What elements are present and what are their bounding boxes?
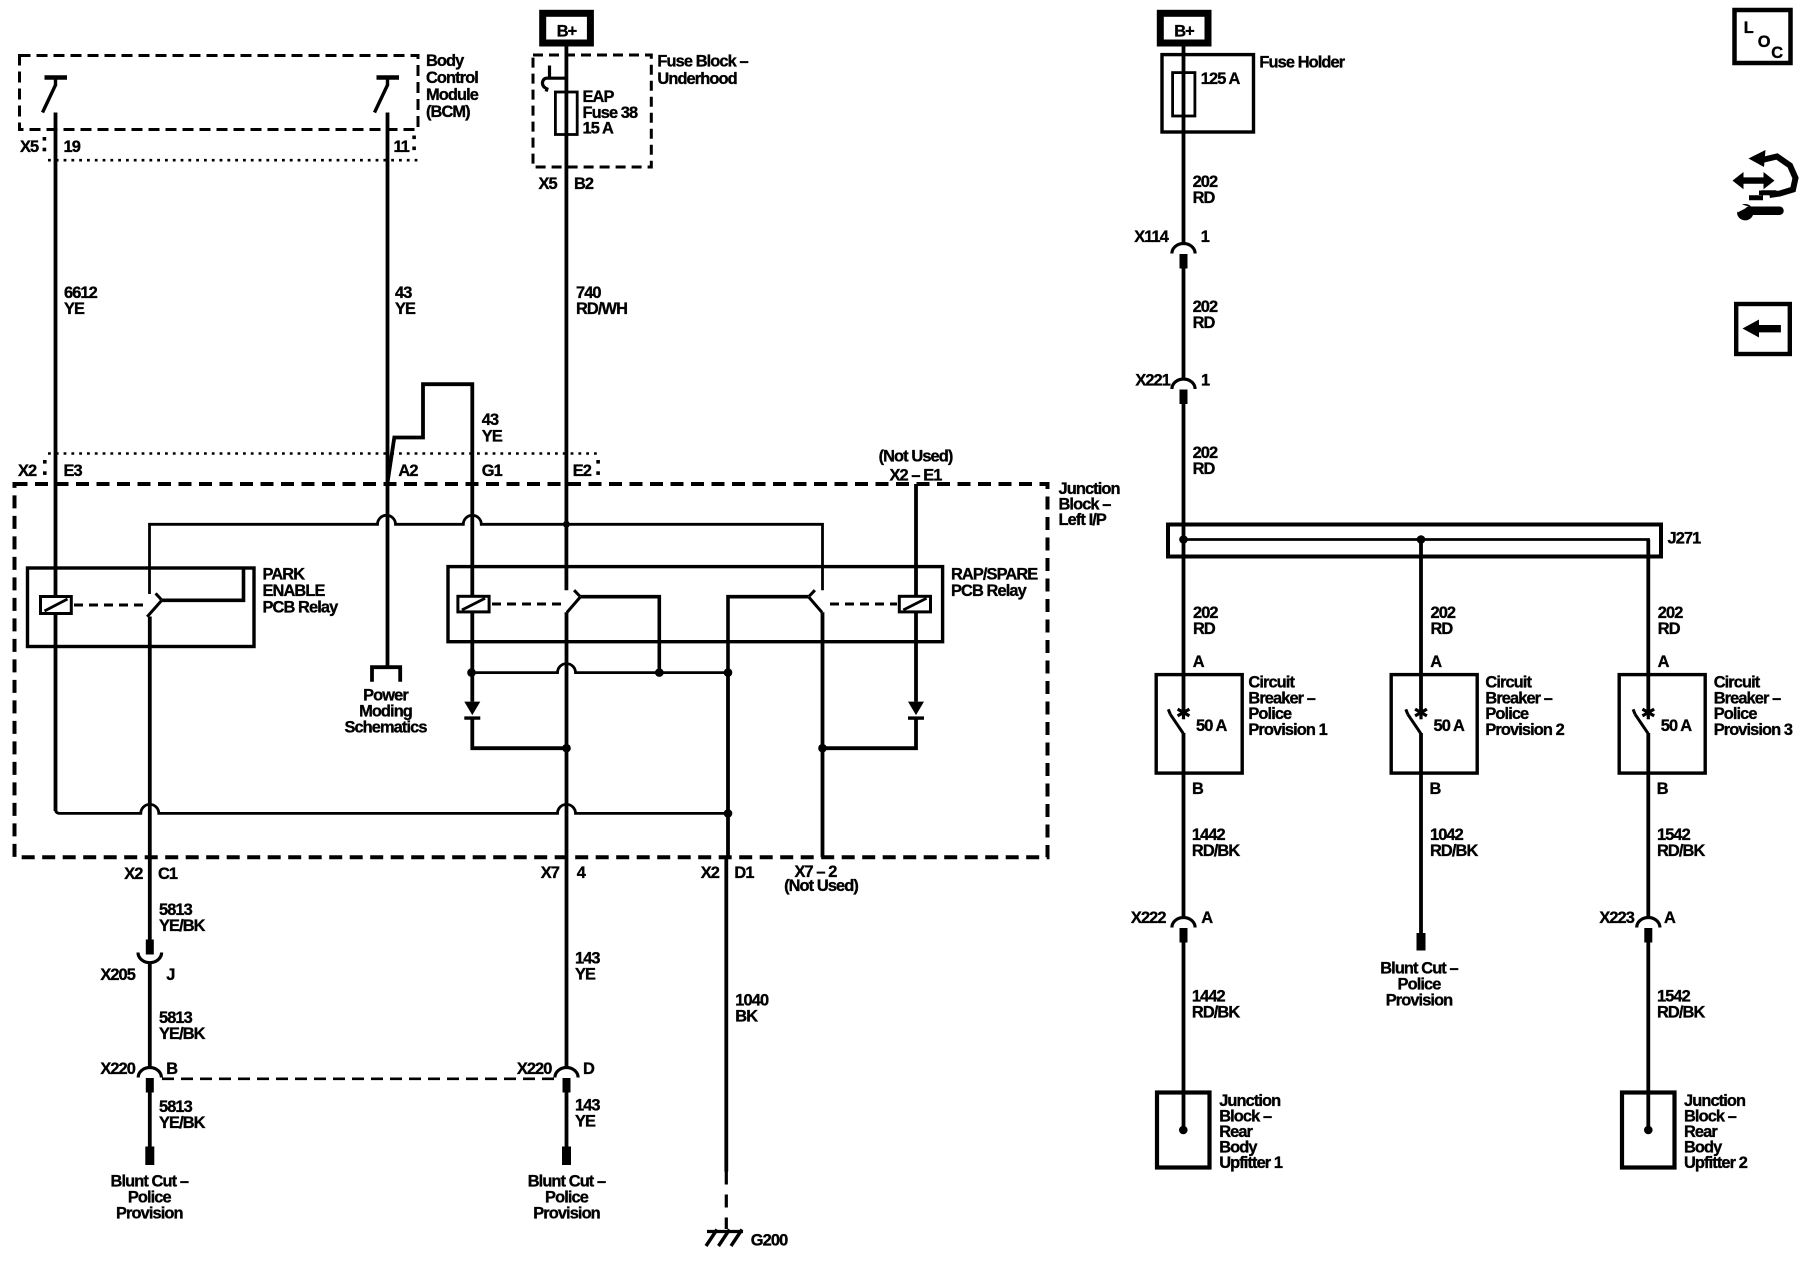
B+ battery positive symbol (right) xyxy=(1160,13,1208,43)
svg-text:O: O xyxy=(1758,33,1771,51)
Junction Block - Rear Body Upfitter 2 box xyxy=(1622,1093,1675,1168)
svg-text:Provision 3: Provision 3 xyxy=(1714,721,1793,739)
svg-text:A: A xyxy=(1193,653,1205,671)
fuse EAP Fuse 38 15A symbol xyxy=(555,92,577,135)
svg-text:125 A: 125 A xyxy=(1201,70,1241,88)
svg-text:PCB Relay: PCB Relay xyxy=(263,599,340,617)
svg-text:1: 1 xyxy=(1201,228,1210,246)
Fuse Holder box xyxy=(1162,55,1254,132)
svg-text:B2: B2 xyxy=(574,175,594,193)
svg-text:A: A xyxy=(1664,909,1676,927)
Fuse Block - Underhood dashed box xyxy=(533,55,651,167)
RAP/SPARE left switch output wire (to X7-4) xyxy=(565,612,569,857)
junction node E2 bus tap xyxy=(563,521,570,528)
wire 1442 RD/BK (breaker 1 to X222) xyxy=(1182,733,1186,917)
svg-text:Upfitter 2: Upfitter 2 xyxy=(1684,1154,1748,1172)
svg-text:X223: X223 xyxy=(1599,909,1634,927)
svg-text:YE: YE xyxy=(395,300,416,318)
wire J271 to circuit breaker 2 (202 RD) xyxy=(1419,540,1423,676)
bus bar J271 box xyxy=(1168,525,1661,557)
svg-text:X5: X5 xyxy=(20,138,39,156)
wire 143 YE (X7-4 to X220-D) xyxy=(565,857,569,1067)
RAP/SPARE relay linkage left (dashed) xyxy=(492,603,562,606)
svg-text:L: L xyxy=(1744,19,1754,37)
svg-text:RD: RD xyxy=(1193,189,1216,207)
circuit breaker 2 box (Police Provision 2) xyxy=(1391,675,1477,774)
ground G200 symbol xyxy=(707,1230,743,1233)
circuit breaker 1 input wire xyxy=(1182,675,1186,710)
junction node left coil to ground bus xyxy=(467,668,476,677)
svg-text:Underhood: Underhood xyxy=(657,70,736,88)
svg-text:RAP/SPARE: RAP/SPARE xyxy=(951,566,1038,584)
RAP/SPARE right switch blade xyxy=(809,597,822,613)
junction block internal B+ bus (from E2) xyxy=(150,515,823,594)
svg-text:11: 11 xyxy=(394,138,410,156)
svg-text:G200: G200 xyxy=(751,1232,788,1250)
svg-text:E2: E2 xyxy=(573,462,592,480)
junction node right N.O. to ground bus (D1) xyxy=(724,668,733,677)
wire G1 to RAP/SPARE relay coil xyxy=(470,484,474,596)
dashed wire to ground xyxy=(725,1172,728,1230)
Body Control Module (BCM) dashed box xyxy=(20,56,419,130)
circuit breaker 2 contact star xyxy=(1415,706,1427,720)
svg-text:RD/BK: RD/BK xyxy=(1430,842,1478,860)
Junction Block - Rear Body Upfitter 1 box xyxy=(1157,1093,1210,1168)
page icon back arrow box xyxy=(1736,304,1790,354)
junction node left N.O. to ground bus xyxy=(655,668,664,677)
in-line connector X220 pin B xyxy=(138,1068,161,1093)
svg-text:Provision 1: Provision 1 xyxy=(1248,721,1327,739)
svg-text:Fuse Block –: Fuse Block – xyxy=(657,53,748,71)
right diode lead to X7-2 wire xyxy=(823,719,917,749)
BCM internal switch (pin 11 output) xyxy=(375,78,400,113)
page icon LOC box xyxy=(1735,10,1791,63)
PARK coil return to D1 ground trace xyxy=(56,804,729,813)
junction node J271 wire 2 xyxy=(1417,535,1426,544)
RAP/SPARE right coil return wire xyxy=(914,612,918,702)
svg-text:(Not Used): (Not Used) xyxy=(879,448,953,466)
wire 43 YE branch jog (A2 to G1) xyxy=(387,384,472,484)
svg-text:Upfitter 1: Upfitter 1 xyxy=(1219,1154,1283,1172)
svg-text:D: D xyxy=(583,1060,595,1078)
wire E3 to PARK ENABLE coil xyxy=(54,454,58,598)
svg-text:YE: YE xyxy=(482,428,503,446)
fuse 125A symbol xyxy=(1173,73,1195,116)
svg-text:B: B xyxy=(1192,780,1204,798)
PARK ENABLE coil return wire xyxy=(54,614,58,812)
svg-text:PARK: PARK xyxy=(263,566,306,584)
svg-text:B+: B+ xyxy=(1174,23,1194,41)
circuit breaker 2 input wire xyxy=(1419,675,1423,710)
svg-text:Body: Body xyxy=(426,52,465,70)
diode (left, PARK/RAP coil suppression) xyxy=(464,702,480,716)
PARK ENABLE relay switch blade xyxy=(147,600,162,617)
wire X2-E1 (Not Used) to RAP/SPARE coil xyxy=(914,484,918,596)
wire A2 to Power Moding Schematics xyxy=(386,484,390,666)
wire 143 YE (below X220) xyxy=(565,1093,569,1147)
off-page connector symbol (Power Moding) xyxy=(372,667,400,682)
BCM internal switch (pin 19 output) xyxy=(43,78,68,113)
circuit breaker 3 contact star xyxy=(1642,706,1654,720)
svg-text:YE: YE xyxy=(575,1113,596,1131)
junction block ground bus xyxy=(472,664,729,673)
svg-text:RD: RD xyxy=(1193,620,1216,638)
svg-text:Control: Control xyxy=(426,69,478,87)
circuit breaker 3 blade xyxy=(1635,714,1648,733)
svg-text:RD/BK: RD/BK xyxy=(1657,1004,1705,1022)
blunt cut end (1042) xyxy=(1417,933,1426,951)
svg-text:RD/BK: RD/BK xyxy=(1192,1004,1240,1022)
svg-text:X220: X220 xyxy=(100,1060,135,1078)
svg-text:G1: G1 xyxy=(482,462,503,480)
svg-text:C1: C1 xyxy=(158,865,178,883)
wire from B+ through EAP fuse (740 RD/WH) xyxy=(565,46,569,590)
svg-text:Provision: Provision xyxy=(1386,992,1453,1010)
PARK ENABLE relay coil xyxy=(41,597,72,614)
wire 1542 RD/BK (breaker 3 to X223) xyxy=(1646,733,1650,917)
svg-text:YE/BK: YE/BK xyxy=(159,917,206,935)
svg-text:43: 43 xyxy=(482,411,499,429)
wire J271 to circuit breaker 3 (202 RD) xyxy=(1646,540,1650,676)
svg-text:C: C xyxy=(1771,44,1783,62)
circuit breaker 2 blade xyxy=(1408,714,1421,733)
circuit breaker 1 box (Police Provision 1) xyxy=(1156,675,1242,774)
relay PARK ENABLE PCB Relay box xyxy=(28,568,255,647)
svg-text:X114: X114 xyxy=(1134,228,1170,246)
bus bar J271 internal conductor xyxy=(1184,540,1649,555)
left diode lead to X7-4 wire xyxy=(472,719,566,749)
junction node coil return to D1 wire xyxy=(724,809,733,818)
wire 6612 YE (BCM 19 to X2-E3) xyxy=(54,113,58,455)
svg-text:A: A xyxy=(1201,909,1213,927)
wire X114 to X221 xyxy=(1182,269,1186,379)
RAP/SPARE relay coil (left) xyxy=(458,596,489,612)
junction node diode to X7-4 wire xyxy=(562,744,571,753)
junction node diode to X7-2 wire xyxy=(818,744,827,753)
svg-text:D1: D1 xyxy=(734,864,754,882)
circuit breaker 1 contact star xyxy=(1178,706,1190,720)
svg-text:1: 1 xyxy=(1201,372,1210,390)
svg-text:Fuse Holder: Fuse Holder xyxy=(1259,54,1345,72)
svg-text:X205: X205 xyxy=(100,966,135,984)
RAP/SPARE right switch output wire (to X7-2) xyxy=(821,612,825,857)
wire B+ to fuse holder xyxy=(1182,43,1186,55)
RAP/SPARE right N.O. contact trace xyxy=(728,597,809,673)
svg-text:X5: X5 xyxy=(538,175,557,193)
fuse block terminal hook symbol xyxy=(542,66,568,92)
wire through fuse holder xyxy=(1182,55,1186,243)
RAP/SPARE left coil return wire xyxy=(470,612,474,702)
relay RAP/SPARE PCB Relay box xyxy=(448,567,943,642)
junction node upfitter 1 xyxy=(1179,1126,1188,1135)
svg-text:B+: B+ xyxy=(557,23,577,41)
svg-text:19: 19 xyxy=(64,138,81,156)
svg-text:B: B xyxy=(1430,780,1442,798)
diode (right, RAP coil suppression) xyxy=(908,702,924,716)
wire X221 to J271 xyxy=(1182,404,1186,540)
svg-text:X2: X2 xyxy=(18,462,37,480)
svg-text:Provision: Provision xyxy=(116,1205,183,1223)
svg-text:YE: YE xyxy=(64,300,85,318)
svg-text:PCB Relay: PCB Relay xyxy=(951,582,1028,600)
svg-text:RD: RD xyxy=(1658,620,1681,638)
wire 1040 BK (D1 to G200) xyxy=(724,857,728,1171)
svg-text:RD/WH: RD/WH xyxy=(576,300,627,318)
wire J271 to circuit breaker 1 (202 RD) xyxy=(1182,540,1186,676)
svg-text:Schematics: Schematics xyxy=(344,719,427,737)
svg-text:Provision 2: Provision 2 xyxy=(1485,721,1564,739)
in-line connector X221 pin 1 xyxy=(1172,379,1195,404)
svg-text:X221: X221 xyxy=(1135,372,1170,390)
svg-text:E3: E3 xyxy=(64,462,83,480)
svg-text:Module: Module xyxy=(426,86,479,104)
junction node J271 wire 1 xyxy=(1179,535,1188,544)
RAP/SPARE left switch blade xyxy=(567,597,580,613)
circuit breaker 1 blade xyxy=(1170,714,1183,733)
wire 5813 YE/BK (below X220) xyxy=(148,1093,152,1147)
svg-text:50 A: 50 A xyxy=(1661,717,1692,735)
svg-text:X7: X7 xyxy=(541,864,560,882)
svg-text:(Not Used): (Not Used) xyxy=(784,877,858,895)
wire 5813 YE/BK (C1 to X205) xyxy=(148,857,152,939)
blunt cut end (143) xyxy=(562,1147,571,1166)
svg-text:X2: X2 xyxy=(701,864,720,882)
svg-text:J271: J271 xyxy=(1668,530,1702,548)
svg-text:J: J xyxy=(166,966,174,984)
svg-text:X220: X220 xyxy=(517,1060,552,1078)
svg-text:RD: RD xyxy=(1431,620,1454,638)
circuit breaker 3 box (Police Provision 3) xyxy=(1619,675,1705,774)
svg-text:15 A: 15 A xyxy=(583,120,614,138)
svg-text:A: A xyxy=(1658,653,1670,671)
svg-text:RD/BK: RD/BK xyxy=(1657,842,1705,860)
wire 5813 YE/BK (X205 to X220) xyxy=(148,964,152,1067)
in-line connector X223 pin A xyxy=(1637,918,1660,943)
in-line connector X205 pin J xyxy=(138,940,162,963)
wire 1442 RD/BK (X222 to junction block) xyxy=(1182,943,1186,1131)
B+ battery positive symbol (EAP feed) xyxy=(543,13,591,43)
in-line connector X222 pin A xyxy=(1172,918,1195,943)
blunt cut end (5813) xyxy=(145,1147,154,1166)
wire 1542 RD/BK (X223 to junction block) xyxy=(1646,943,1650,1131)
harness dashed link X220 B to D xyxy=(162,1077,555,1080)
Junction Block - Left I/P dashed box xyxy=(15,484,1048,857)
svg-text:BK: BK xyxy=(735,1008,758,1026)
junction node upfitter 2 xyxy=(1644,1126,1653,1135)
svg-text:ENABLE: ENABLE xyxy=(263,582,326,600)
circuit breaker 3 input wire xyxy=(1646,675,1650,710)
svg-text:YE: YE xyxy=(575,966,596,984)
PARK ENABLE switch output wire (to X2-C1) xyxy=(148,617,152,858)
svg-text:(BCM): (BCM) xyxy=(426,103,470,121)
svg-text:X222: X222 xyxy=(1131,909,1166,927)
svg-text:RD: RD xyxy=(1193,460,1216,478)
svg-text:Left I/P: Left I/P xyxy=(1059,511,1107,529)
svg-text:YE/BK: YE/BK xyxy=(159,1025,206,1043)
wire 1042 RD/BK (breaker 2 to blunt cut) xyxy=(1419,733,1423,933)
svg-text:RD/BK: RD/BK xyxy=(1192,842,1240,860)
svg-text:RD: RD xyxy=(1193,314,1216,332)
PARK ENABLE relay linkage (dashed) xyxy=(74,604,145,607)
in-line connector X220 pin D xyxy=(555,1068,578,1093)
svg-text:Provision: Provision xyxy=(533,1205,600,1223)
svg-text:B: B xyxy=(166,1060,178,1078)
svg-text:50 A: 50 A xyxy=(1434,717,1465,735)
svg-text:A: A xyxy=(1430,653,1442,671)
PARK ENABLE N.O. contact trace xyxy=(162,569,244,601)
RAP/SPARE relay coil (right) xyxy=(899,596,930,612)
svg-text:50 A: 50 A xyxy=(1196,717,1227,735)
svg-text:YE/BK: YE/BK xyxy=(159,1114,206,1132)
RAP/SPARE relay linkage right (dashed) xyxy=(830,603,897,606)
svg-text:X2: X2 xyxy=(124,865,143,883)
page icon double arrow with wrench xyxy=(1733,172,1775,189)
RAP/SPARE left N.O. contact trace xyxy=(580,597,659,673)
wire 43 YE (BCM 11 to X2-A2) xyxy=(386,113,390,485)
svg-text:A2: A2 xyxy=(398,462,418,480)
in-line connector X114 pin 1 xyxy=(1172,244,1195,269)
wire D1 (ground collector) xyxy=(726,673,730,858)
svg-text:B: B xyxy=(1657,780,1669,798)
connector row X2 of junction block (E3 A2 G1 E2) xyxy=(48,452,598,455)
